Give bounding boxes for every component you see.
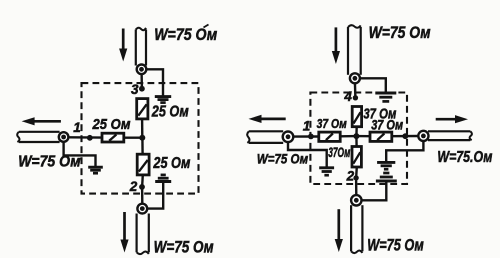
resistor 37 Om right horizontal (right) [370, 132, 392, 141]
wire node 2 to bottom coax (right) [355, 178, 358, 195]
coax connector circle bottom (left) [137, 204, 147, 214]
dashed enclosure box (left network) [82, 83, 199, 194]
resistor 37 Om upper vertical (right) [352, 107, 361, 127]
svg-text:25 Ом: 25 Ом [92, 116, 131, 133]
svg-text:W=75 Ом: W=75 Ом [154, 238, 214, 257]
node 2 dot (right) [353, 175, 358, 180]
wire center junction to lower resistor (right) [355, 136, 358, 146]
wire top coax center conductor to node 4 (right) [354, 82, 357, 98]
label 25 Om horizontal (left) [92, 116, 131, 133]
label W=75 Om output (right) [437, 149, 492, 166]
label W=75 Om bottom (left) [154, 238, 214, 257]
resistor 25 Om horizontal (left) [102, 133, 124, 142]
left arrow at input coax (right) [249, 115, 286, 123]
svg-text:W=75 Ом: W=75 Ом [367, 235, 424, 254]
center junction dot (left) [139, 135, 145, 141]
svg-text:3: 3 [131, 82, 139, 97]
label node 1 (right) [303, 118, 311, 133]
svg-text:37 Ом: 37 Ом [371, 118, 403, 133]
left coax tube (left network input) [17, 132, 59, 142]
inverted ground symbol near node 2 (left) [155, 175, 171, 182]
wire lower resistor to node 2 (left) [141, 175, 144, 187]
resistor 25 Om lower vertical (left) [137, 154, 149, 175]
label node 2 (right) [346, 169, 355, 184]
resistor 25 Om upper vertical (left) [137, 99, 148, 119]
wire right resistor to output port (right) [392, 135, 419, 138]
label 37 Om left (right) [317, 116, 347, 131]
label node 3 (left) [131, 82, 139, 97]
label node 1 (left) [73, 120, 81, 135]
top coax tube (right) [348, 25, 361, 75]
bottom coax tube (left) [137, 214, 149, 255]
down arrow at bottom coax (right) [335, 209, 343, 252]
coax connector circle input (left) [59, 132, 69, 142]
wire output shield to ground (right) [386, 141, 423, 162]
wire center junction to right resistor (right) [356, 135, 370, 137]
svg-text:37 Ом: 37 Ом [317, 116, 347, 131]
coax connector circle input (right) [283, 132, 294, 143]
right coax tube (right network output) [428, 131, 472, 140]
label 37 Om upper (right) [363, 106, 396, 123]
ground symbol top (right) [375, 93, 396, 101]
svg-text:W=75.Ом: W=75.Ом [437, 149, 492, 166]
wire input center conductor to node 1 (left) [68, 136, 102, 139]
svg-text:2: 2 [129, 179, 138, 194]
output port dot on box edge (right) [402, 133, 408, 139]
svg-text:W=75 Ом: W=75 Ом [369, 23, 431, 42]
coax connector circle bottom (right) [351, 195, 361, 205]
node 3 dot (left) [139, 86, 145, 92]
bottom coax tube (right) [351, 205, 362, 253]
label W=75 Om bottom (right) [367, 235, 424, 254]
wire lower resistor to node 2 (right) [355, 167, 358, 178]
wire center junction to lower resistor (left) [141, 138, 144, 155]
resistor 37 Om left horizontal (right) [319, 132, 340, 141]
wire horizontal resistor to center junction (left) [124, 136, 143, 138]
svg-text:1: 1 [73, 120, 81, 135]
coax connector circle top (right) [350, 73, 360, 83]
label W=75 Om top (left) [154, 25, 217, 45]
resistor 37 Om lower vertical (right) [352, 147, 361, 168]
down arrow at top coax (right) [332, 27, 340, 64]
dashed enclosure box (right network) [310, 93, 407, 185]
label 25 Om lower (left) [153, 155, 191, 172]
wire upper resistor to center junction (left) [141, 119, 144, 138]
svg-text:1: 1 [303, 118, 311, 133]
svg-text:W=75 Ом: W=75 Ом [154, 25, 217, 44]
inverted ground symbol mid lower (right) [376, 173, 397, 181]
wire top coax shield stub to ground (left) [146, 69, 163, 96]
svg-text:4: 4 [343, 89, 352, 104]
transmission line top coax tube (left) [136, 28, 146, 66]
ground symbol top (left) [155, 97, 171, 103]
label 37 Om lower (right) [328, 144, 350, 160]
label node 2 (left) [129, 179, 138, 194]
wire input center conductor to node 1 (right) [293, 135, 319, 138]
ground symbol mid upper (right) [377, 162, 395, 169]
wire inverted ground to bottom coax shield (left) [147, 182, 163, 209]
wire top coax center conductor to node 3 (left) [140, 73, 143, 89]
wire node 2 to bottom coax (left) [141, 187, 144, 204]
coax connector circle top (left) [137, 65, 147, 75]
label 25 Om upper (left) [151, 104, 189, 121]
svg-text:W=75 Ом: W=75 Ом [257, 151, 308, 166]
wire inverted ground to bottom coax shield (right) [362, 181, 387, 200]
wire input shield to internal ground (left) [64, 142, 96, 167]
coax connector circle output (right) [418, 131, 428, 141]
svg-text:37Ом: 37Ом [328, 144, 350, 160]
label W=75 Om input (right) [257, 151, 308, 166]
wire input shield to internal ground (right) [288, 142, 327, 167]
label 37 Om right (right) [371, 118, 403, 133]
svg-text:2: 2 [346, 169, 355, 184]
node 2 dot (left) [139, 184, 145, 190]
wire upper resistor to center junction (right) [355, 127, 358, 136]
ground symbol near input (left) [88, 167, 103, 173]
right arrow at output coax (right) [436, 115, 468, 123]
node 1 dot (left) [87, 135, 93, 141]
wire left resistor to center junction (right) [340, 135, 356, 138]
left arrow at input coax (left) [22, 117, 61, 125]
label W=75 Om input (left) [18, 154, 81, 171]
down arrow at bottom coax (left) [120, 212, 128, 253]
label W=75 Om top (right) [369, 23, 431, 42]
svg-text:25 Ом: 25 Ом [151, 104, 189, 121]
down arrow at top coax (left) [119, 29, 127, 62]
svg-text:25 Ом: 25 Ом [153, 155, 191, 172]
node 1 dot (right) [308, 134, 314, 140]
left coax tube (right network input) [247, 131, 283, 143]
center junction dot (right) [353, 133, 359, 139]
label node 4 (right) [343, 89, 352, 104]
wire top shield stub to ground (right) [360, 78, 386, 93]
ground symbol near input (right) [319, 168, 334, 175]
node 4 dot (right) [353, 95, 358, 100]
